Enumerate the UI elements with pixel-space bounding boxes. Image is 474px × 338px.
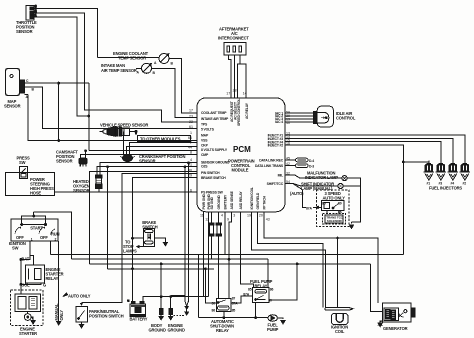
wire relay to starter G: [21, 283, 41, 285]
wire pcm asd sense: [225, 212, 232, 299]
svg-text:17: 17: [189, 109, 193, 113]
svg-text:RELAY: RELAY: [46, 276, 59, 281]
wire TPS pin1 to coolant sensor node: [36, 8, 98, 57]
svg-text:5 VOLTS: 5 VOLTS: [201, 127, 215, 131]
svg-text:STARTER: STARTER: [19, 331, 37, 336]
wire trans relay down to solenoid: [327, 210, 339, 214]
engine ground strap dashed link: [174, 315, 185, 317]
svg-text:FP TACH: FP TACH: [263, 195, 267, 209]
wire TPS pin2: [36, 13, 198, 122]
fuse 1: [209, 212, 214, 259]
heated oxygen sensor: [96, 169, 102, 192]
trans relay: [321, 200, 344, 210]
bus wire B2 battery feed: [71, 258, 268, 260]
svg-text:GROUND: GROUND: [149, 328, 166, 333]
svg-text:BAT: BAT: [21, 256, 29, 261]
wire TPS pin3: [36, 17, 89, 116]
svg-text:RELAY: RELAY: [255, 283, 268, 288]
wire fuel pump relay pins: [241, 212, 269, 288]
svg-text:3: 3: [35, 4, 37, 8]
svg-text:PUMP: PUMP: [267, 327, 279, 332]
svg-text:SWITCH: SWITCH: [142, 224, 157, 229]
PN switch ground: [79, 322, 83, 328]
wire PCM to injector 1 via down: [285, 145, 429, 255]
lamp ground bus: [343, 178, 360, 222]
wire generator left pin from bus B3: [370, 264, 382, 312]
wire ASD relay pins: [218, 236, 220, 298]
svg-text:PCM: PCM: [233, 145, 251, 154]
wire coil left pin to PCM: [257, 212, 323, 308]
svg-text:AC RELAY: AC RELAY: [245, 102, 249, 119]
fuel pump: [268, 315, 285, 324]
wire ASD 87A to fuel pump relay: [231, 296, 253, 303]
fuel injector #4: [448, 161, 458, 181]
bus wire B4: [108, 268, 214, 270]
wire sensor row column: [90, 172, 197, 264]
wire PCM to injector 2: [285, 135, 465, 160]
svg-text:86: 86: [270, 288, 274, 292]
svg-text:44: 44: [188, 146, 192, 150]
svg-text:4: 4: [221, 214, 223, 218]
svg-text:ASD SENSE: ASD SENSE: [230, 190, 234, 209]
wire battery to body ground node: [143, 297, 209, 302]
wire ignition feed down to bus B2: [34, 212, 72, 259]
svg-text:G: G: [43, 283, 46, 288]
svg-text:VSS: VSS: [201, 139, 208, 143]
svg-text:TO OTHER MODULES: TO OTHER MODULES: [140, 136, 181, 141]
svg-text:BATTERY: BATTERY: [130, 316, 148, 321]
svg-text:GROUND: GROUND: [168, 328, 185, 333]
svg-text:O2S: O2S: [201, 165, 208, 169]
svg-text:41: 41: [188, 162, 192, 166]
svg-text:SENSOR: SENSOR: [73, 188, 90, 193]
wire PCM to injector 4: [285, 138, 453, 160]
svg-text:P/N SWITCH: P/N SWITCH: [201, 171, 220, 175]
svg-text:1: 1: [190, 131, 192, 135]
svg-text:16: 16: [286, 142, 290, 146]
svg-text:30: 30: [338, 202, 342, 206]
fuel injector #3: [436, 161, 446, 181]
svg-text:8 VOLTS SUPPLY: 8 VOLTS SUPPLY: [201, 148, 228, 152]
svg-text:30: 30: [188, 169, 192, 173]
svg-text:SOL: SOL: [22, 283, 31, 288]
svg-text:AUTO ONLY: AUTO ONLY: [68, 294, 91, 299]
svg-text:SENSOR: SENSOR: [139, 158, 156, 163]
svg-text:6: 6: [190, 188, 192, 192]
svg-text:ASD RELAY: ASD RELAY: [239, 191, 243, 210]
svg-text:DATA LINK TRANS: DATA LINK TRANS: [255, 164, 284, 168]
PCM powertrain control module U1: [197, 98, 285, 212]
svg-text:SW: SW: [19, 160, 26, 165]
svg-text:INJECT #2: INJECT #2: [268, 144, 284, 148]
svg-text:45: 45: [286, 157, 290, 161]
wire 87A arrow into trans relay: [316, 206, 321, 208]
malfunction indicator lamp: [342, 176, 347, 181]
wire generator right pin from PCM: [264, 212, 378, 303]
svg-text:GROUND: GROUND: [217, 195, 221, 210]
idle air control motor: [314, 106, 334, 127]
wire MAP B: [28, 87, 198, 129]
shift indicator lamp: [338, 183, 343, 188]
svg-text:SHIFT/TCC: SHIFT/TCC: [267, 182, 284, 186]
svg-text:#2: #2: [463, 182, 467, 186]
svg-text:CMP: CMP: [201, 153, 209, 157]
wire PCM pin 54 to shift lamp and auto branch: [285, 184, 338, 187]
svg-text:32: 32: [286, 172, 290, 176]
wire o2 heater column: [107, 167, 109, 269]
manual only wire with arrow: [57, 241, 61, 325]
wire power steering to PCM: [55, 191, 198, 193]
wire ASD out down to pump/injector line: [199, 255, 224, 318]
svg-text:12: 12: [205, 218, 209, 222]
svg-text:86: 86: [212, 308, 216, 312]
3 speed auto only dashed box: [316, 190, 349, 226]
wire coil right pin to ASD line: [337, 238, 339, 308]
svg-text:CONTROL: CONTROL: [336, 116, 356, 121]
svg-text:HOSE: HOSE: [30, 191, 41, 196]
trans TCC solenoid dashed box: [323, 213, 346, 224]
svg-text:OFF: OFF: [40, 235, 48, 240]
crankshaft position sensor: [120, 153, 135, 162]
svg-text:IAC 4: IAC 4: [275, 120, 283, 124]
power steering high press hose box: [6, 173, 55, 196]
bus wire B1 asd out to injectors: [199, 254, 404, 256]
svg-text:61: 61: [189, 125, 193, 129]
svg-text:IGNITION COIL: IGNITION COIL: [250, 187, 254, 209]
svg-text:BATTERY: BATTERY: [224, 194, 228, 209]
wire to stop lamps arrow: [139, 246, 146, 248]
to other modules box: [138, 135, 191, 141]
wire asd out to fuel pump line: [199, 317, 256, 319]
aftermarket AC interconnect connector: [224, 43, 246, 56]
fuel injector #2: [460, 161, 470, 181]
fuel pump relay: [253, 288, 270, 303]
wire air temp sensor to PCM: [136, 67, 141, 69]
svg-text:8: 8: [190, 150, 192, 154]
wire PN switch to PCM: [82, 173, 198, 302]
svg-text:SENSOR: SENSOR: [56, 158, 73, 163]
park neutral position switch: [76, 307, 87, 322]
wire relay to fuel pump: [256, 302, 268, 317]
svg-text:BRAKE SWITCH: BRAKE SWITCH: [201, 176, 226, 180]
svg-text:AIR TEMP SENSOR: AIR TEMP SENSOR: [101, 68, 137, 73]
svg-text:3: 3: [233, 214, 235, 218]
svg-text:23: 23: [189, 114, 193, 118]
generator: [382, 303, 415, 322]
wire PCM to injector 3: [285, 142, 441, 161]
svg-text:(AUTO): (AUTO): [290, 191, 304, 196]
wire PCM to MIL: [285, 175, 342, 178]
automatic shutdown relay: [217, 299, 232, 312]
svg-text:RELAY: RELAY: [216, 328, 229, 333]
svg-text:TPS: TPS: [201, 123, 208, 127]
svg-text:SOLENOID: SOLENOID: [327, 219, 343, 223]
svg-text:85: 85: [248, 288, 252, 292]
svg-text:AUTO ONLY: AUTO ONLY: [323, 195, 346, 200]
svg-text:87A: 87A: [232, 301, 238, 305]
svg-text:87A: 87A: [243, 292, 249, 296]
svg-text:POSITION SWITCH: POSITION SWITCH: [89, 314, 124, 319]
svg-text:20: 20: [259, 214, 263, 218]
engine starter relay: [26, 265, 45, 283]
wire battery/brake column to PCM brake row: [133, 178, 198, 304]
svg-text:ONLY: ONLY: [59, 310, 64, 321]
svg-text:MODULE: MODULE: [232, 168, 249, 173]
svg-text:17: 17: [226, 92, 230, 96]
svg-text:19: 19: [247, 214, 251, 218]
wire PCM to data link: [285, 160, 296, 166]
auto only arrow: [63, 293, 68, 297]
svg-text:29: 29: [188, 174, 192, 178]
engine ground: [169, 296, 185, 320]
svg-text:85: 85: [232, 308, 236, 312]
svg-text:GENERATOR: GENERATOR: [383, 326, 408, 331]
wire 8 volt supply row: [89, 150, 197, 152]
svg-text:OFF: OFF: [16, 235, 24, 240]
svg-text:PS PRESS SW: PS PRESS SW: [201, 191, 224, 195]
svg-text:INTERCONNECT: INTERCONNECT: [218, 36, 249, 41]
vehicle speed sensor: [100, 127, 130, 136]
wires PCM to IAC: [285, 113, 317, 122]
svg-text:87A: 87A: [306, 207, 312, 211]
svg-text:COOLANT TEMP: COOLANT TEMP: [201, 111, 227, 115]
svg-text:22: 22: [189, 120, 193, 124]
wire coolant sensor to PCM: [98, 57, 159, 59]
svg-text:SENSOR: SENSOR: [16, 29, 33, 34]
body ground: [159, 263, 163, 320]
ignition switch: [11, 216, 58, 241]
svg-text:PWR GND: PWR GND: [202, 193, 206, 209]
svg-text:GEN FIELD: GEN FIELD: [256, 192, 260, 209]
svg-text:11: 11: [200, 214, 204, 218]
wire O2 pins to PCM: [97, 163, 197, 170]
svg-text:D-4: D-4: [309, 159, 314, 163]
svg-text:DATA LINK REC: DATA LINK REC: [259, 159, 283, 163]
wire ignition sw bottom pins: [21, 241, 51, 294]
svg-text:MAP: MAP: [201, 134, 209, 138]
svg-text:INTAKE AIR TEMP: INTAKE AIR TEMP: [201, 117, 229, 121]
data link connector pins D-4 D-3: [296, 158, 309, 167]
intake air temp sensor: [142, 63, 153, 74]
svg-text:30: 30: [212, 301, 216, 305]
PCM pin labels: [188, 89, 290, 222]
brake switch: [143, 229, 154, 247]
fuel injector #1: [424, 161, 434, 181]
wire CKP to PCM: [126, 143, 197, 153]
svg-text:START: START: [30, 225, 43, 230]
svg-text:30: 30: [268, 299, 272, 303]
svg-text:2: 2: [55, 237, 57, 241]
svg-text:54: 54: [286, 180, 290, 184]
wire B1 left: [50, 254, 198, 256]
svg-text:CKP: CKP: [201, 144, 209, 148]
svg-text:28: 28: [233, 89, 237, 93]
svg-text:66: 66: [188, 136, 192, 140]
wire brake feed through switch: [133, 238, 166, 242]
MAP sensor: [6, 69, 28, 96]
wire MAP C: [28, 83, 89, 151]
engine coolant temp sensor: [159, 53, 170, 64]
pcm top pin labels vertical: [230, 99, 249, 126]
generator ground: [378, 321, 382, 327]
svg-text:43: 43: [266, 218, 270, 222]
press switch: [19, 167, 27, 179]
wire pcm bottom col 9: [204, 212, 209, 297]
wire CKP C pin to VSS wire: [122, 131, 124, 152]
svg-text:LAMPS: LAMPS: [123, 249, 137, 254]
svg-text:SENSOR: SENSOR: [4, 104, 21, 109]
svg-text:9: 9: [227, 218, 229, 222]
svg-text:14: 14: [243, 92, 247, 96]
svg-text:TEMP SENSOR: TEMP SENSOR: [118, 56, 146, 61]
wire AC pins to PCM top: [228, 55, 246, 98]
pcm bottom pin labels vertical: [202, 187, 267, 209]
svg-text:SD GND: SD GND: [210, 197, 214, 210]
svg-text:COIL: COIL: [335, 329, 345, 334]
wire relay contact feed: [269, 264, 297, 300]
engine starter dashed box: [11, 290, 43, 326]
battery: [127, 300, 145, 317]
ignition coil: [325, 307, 353, 324]
svg-text:MIL: MIL: [278, 174, 283, 178]
svg-text:87: 87: [232, 297, 236, 301]
svg-text:SW: SW: [12, 246, 19, 251]
bus wire B3 ignition run: [90, 263, 371, 265]
svg-text:1: 1: [31, 237, 33, 241]
svg-text:85: 85: [322, 202, 326, 206]
fuse 2: [216, 212, 221, 236]
svg-text:40: 40: [286, 121, 290, 125]
svg-text:FUEL INJECTORS: FUEL INJECTORS: [429, 186, 462, 191]
camshaft position sensor: [79, 158, 87, 166]
svg-text:SPEED CONTROL: SPEED CONTROL: [237, 99, 241, 126]
svg-text:D-3: D-3: [309, 165, 314, 169]
svg-text:VEHICLE SPEED SENSOR: VEHICLE SPEED SENSOR: [100, 122, 148, 127]
svg-text:86: 86: [338, 211, 342, 215]
wire MAP A: [28, 95, 197, 141]
throttle position sensor connector: [26, 6, 36, 21]
svg-text:INDICATOR LAMP: INDICATOR LAMP: [305, 175, 338, 180]
wire VSS to other modules arrow: [129, 131, 136, 132]
wire left drop from MAP C: [58, 83, 60, 140]
svg-text:RUN: RUN: [51, 232, 60, 237]
svg-text:42: 42: [286, 162, 290, 166]
wire coil second pin to PCM pin 19: [252, 212, 326, 308]
wire CMP to PCM: [81, 151, 197, 159]
sensor ground wires to engine ground strap: [185, 163, 189, 306]
